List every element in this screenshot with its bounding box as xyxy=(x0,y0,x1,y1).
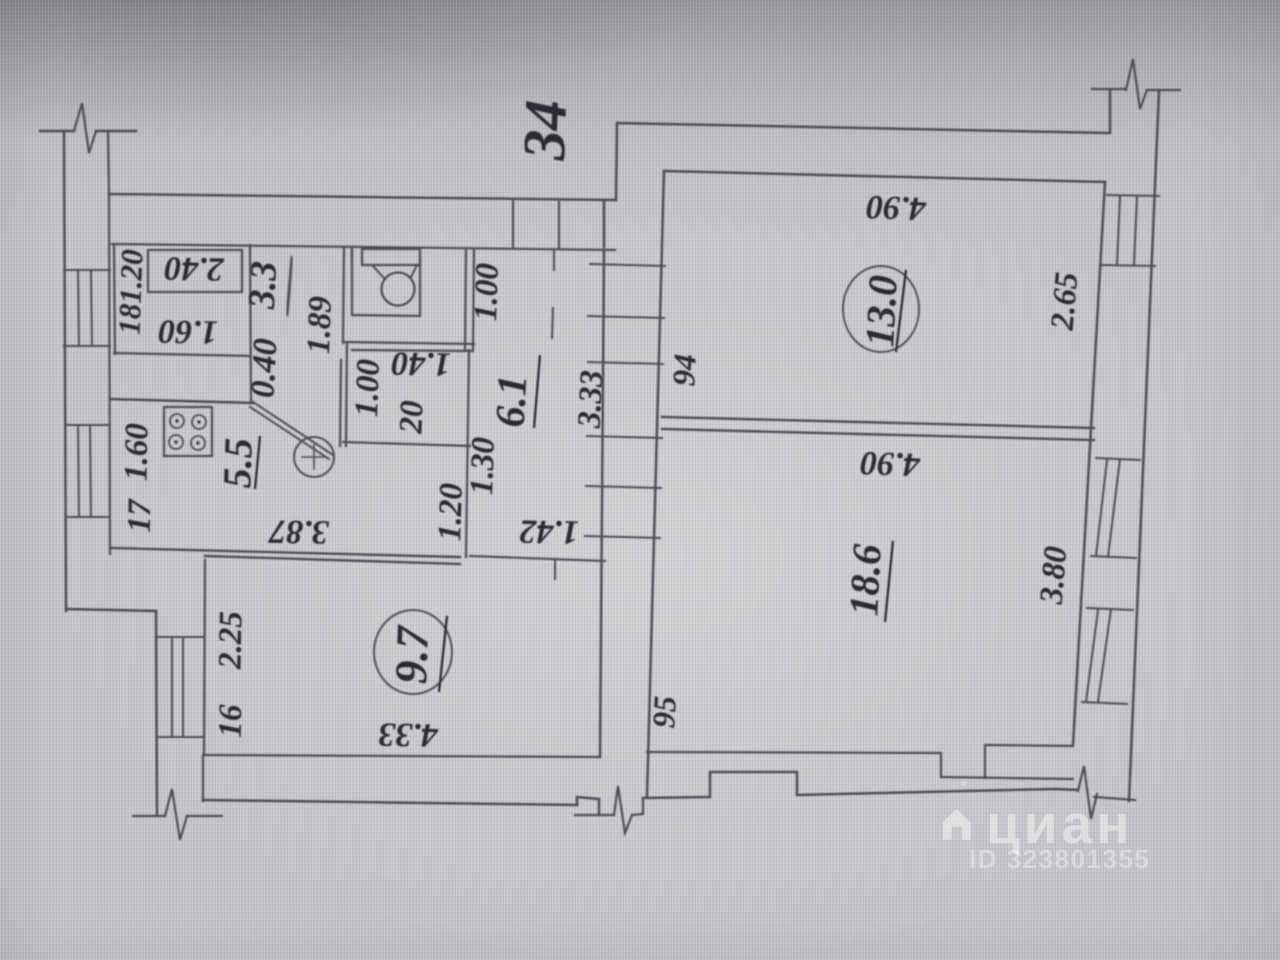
door jamb tick xyxy=(554,559,556,579)
outer wall lower-left vertical xyxy=(156,611,157,815)
left window lower mullions xyxy=(78,425,91,517)
watermark registered mark xyxy=(961,779,967,796)
break symbol bottom-right xyxy=(1078,766,1097,819)
svg-text:16: 16 xyxy=(213,704,250,738)
svg-text:181.20: 181.20 xyxy=(112,249,150,335)
svg-text:1.20: 1.20 xyxy=(432,483,470,542)
underline 9.7 xyxy=(439,616,447,692)
closet box xyxy=(148,250,242,292)
watermark cian xyxy=(986,792,1133,856)
window1 right sills xyxy=(1102,195,1159,266)
window1 mullions xyxy=(1117,196,1137,265)
room1 left wall xyxy=(114,246,115,354)
inner right wall xyxy=(1073,182,1105,745)
svg-text:1.00: 1.00 xyxy=(349,359,387,418)
svg-text:1.60: 1.60 xyxy=(118,423,155,481)
underline 13.0 xyxy=(896,270,906,352)
svg-text:3.33: 3.33 xyxy=(571,369,610,430)
stove icon xyxy=(164,407,212,456)
WC cistern xyxy=(362,249,420,265)
window2 mullions xyxy=(1096,459,1120,557)
outer left wall xyxy=(64,131,66,611)
kitchen door circle with cross xyxy=(294,437,334,477)
underline 6.1 xyxy=(534,355,540,428)
svg-text:0.40: 0.40 xyxy=(244,337,284,398)
svg-text:6.1: 6.1 xyxy=(488,374,537,429)
left window upper sills xyxy=(64,270,110,346)
svg-text:4.90: 4.90 xyxy=(860,444,922,483)
svg-text:4.90: 4.90 xyxy=(866,188,928,227)
entrance niche jambs xyxy=(513,201,559,248)
toilet room bottom wall double xyxy=(345,342,474,351)
toilet room right wall double xyxy=(465,249,474,350)
svg-text:34: 34 xyxy=(511,99,579,162)
svg-text:1.89: 1.89 xyxy=(301,296,339,355)
room 9.7 bottom left corner xyxy=(202,757,204,801)
facade stub top-left with break xyxy=(40,130,136,133)
window3 right sills xyxy=(1082,608,1133,704)
svg-text:1.42: 1.42 xyxy=(519,512,579,550)
underline 5.5 xyxy=(255,436,260,489)
watermark id number xyxy=(969,844,1150,875)
hall wall horizontal xyxy=(343,442,470,446)
break symbol top-left xyxy=(74,103,96,153)
window2 right sills xyxy=(1091,458,1140,558)
left window lower sills xyxy=(65,425,110,517)
watermark cian house logo xyxy=(940,806,978,840)
right wall left unit xyxy=(600,201,604,757)
top wall inner right unit xyxy=(664,171,1105,182)
break symbol top-right xyxy=(1126,59,1147,109)
WC enclosure box xyxy=(352,249,420,316)
top wall inner (left unit) xyxy=(112,244,615,250)
hall to room wall xyxy=(470,556,605,561)
window3 mullions xyxy=(1086,609,1111,702)
room 9.7 left wall xyxy=(204,560,205,755)
step to facade stub xyxy=(1109,90,1112,133)
svg-text:1.40: 1.40 xyxy=(391,344,451,382)
bottom wall steps mid xyxy=(577,797,599,815)
svg-text:17: 17 xyxy=(122,498,159,533)
underline 18.6 xyxy=(885,541,893,622)
WC bowl xyxy=(382,273,415,306)
hall wall vertical xyxy=(466,350,469,557)
svg-text:94: 94 xyxy=(665,353,703,387)
bottom outer wall left xyxy=(203,800,577,805)
svg-text:5.5: 5.5 xyxy=(214,437,261,489)
svg-text:1.00: 1.00 xyxy=(468,263,506,322)
svg-text:9.7: 9.7 xyxy=(385,623,438,684)
room1 bottom wall xyxy=(114,353,250,356)
bottom inner wall right unit xyxy=(647,745,1073,779)
left wall right unit xyxy=(647,171,664,797)
facade stub top-right with break xyxy=(1092,89,1180,90)
bottom facade break left xyxy=(133,815,222,817)
room 9.7 window mullions xyxy=(172,637,183,737)
top wall outer (left unit) xyxy=(109,194,616,200)
svg-text:18.6: 18.6 xyxy=(840,542,890,617)
svg-text:95: 95 xyxy=(645,695,683,729)
svg-text:1.60: 1.60 xyxy=(158,312,218,350)
bottom outer wall right unit with bay xyxy=(643,772,1078,798)
svg-text:4.33: 4.33 xyxy=(378,715,439,753)
kitchen top wall xyxy=(110,399,253,403)
kitchen bottom wall double xyxy=(112,548,460,564)
facade top right unit xyxy=(617,123,1108,133)
bath strip right wall double xyxy=(340,343,347,446)
outer right wall xyxy=(1129,91,1159,801)
WC connectors xyxy=(372,265,417,278)
inner left wall xyxy=(108,131,110,554)
svg-text:2.65: 2.65 xyxy=(1044,271,1085,333)
room 9.7 bottom inner wall xyxy=(203,755,600,757)
entrance door stubs xyxy=(552,250,554,338)
room1 / bath strip shared wall xyxy=(250,245,251,402)
facade corner step xyxy=(616,123,617,200)
svg-text:3.87: 3.87 xyxy=(267,512,330,550)
hatch ticks between units xyxy=(585,264,665,538)
svg-text:20: 20 xyxy=(393,400,430,435)
room 9.7 window sills xyxy=(157,637,204,737)
svg-text:3.3: 3.3 xyxy=(241,260,285,311)
outer wall step xyxy=(66,609,156,611)
left window upper mullions xyxy=(78,270,92,346)
svg-text:2.40: 2.40 xyxy=(164,249,225,287)
break symbol bottom mid xyxy=(614,786,632,833)
underline 3.3 xyxy=(287,256,292,316)
svg-text:3.80: 3.80 xyxy=(1033,545,1074,607)
toilet room left wall double xyxy=(343,248,352,343)
kitchen door leaf diagonal double xyxy=(250,402,333,459)
partition wall 13.0/18.6 double xyxy=(662,417,1094,440)
svg-text:2.25: 2.25 xyxy=(212,611,249,670)
